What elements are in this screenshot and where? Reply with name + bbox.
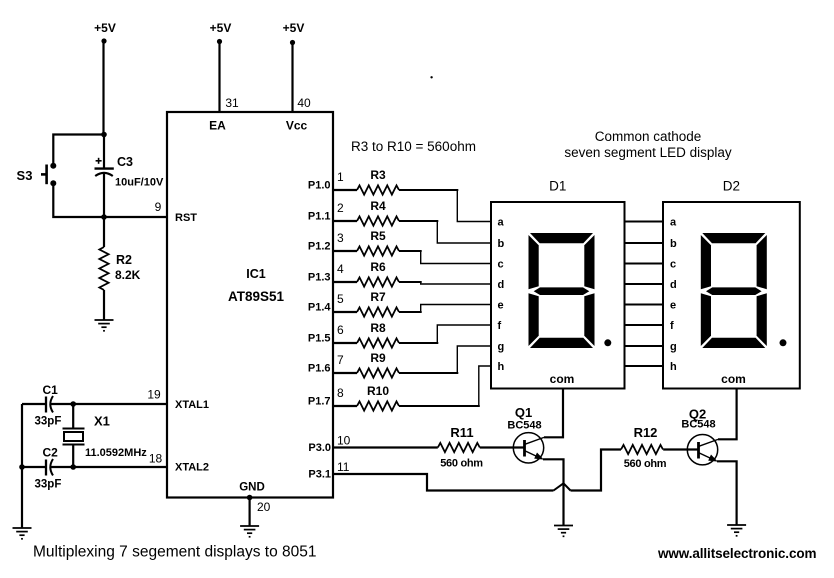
svg-text:R12: R12 — [634, 425, 658, 440]
svg-text:D1: D1 — [549, 179, 566, 194]
svg-text:2: 2 — [337, 201, 344, 215]
pin P1.5 label — [308, 323, 344, 345]
svg-text:33pF: 33pF — [35, 416, 62, 428]
svg-text:R5: R5 — [370, 229, 386, 243]
svg-text:g: g — [670, 341, 677, 353]
wire D1-D2 segment f — [625, 324, 664, 326]
svg-text:P1.2: P1.2 — [308, 241, 331, 253]
svg-text:11.0592MHz: 11.0592MHz — [85, 447, 147, 459]
wire P3.1 route to R12 — [571, 450, 622, 491]
svg-text:1: 1 — [337, 170, 344, 184]
wire C1 to XTAL1 pin — [51, 403, 169, 405]
svg-text:d: d — [498, 279, 505, 291]
wire R7 to segment — [399, 305, 491, 313]
svg-text:a: a — [498, 217, 505, 229]
wire P1.0 to R3 — [333, 189, 357, 191]
resistor R3 — [357, 168, 399, 195]
svg-text:IC1: IC1 — [246, 267, 266, 281]
pin 40 label — [297, 96, 311, 110]
svg-text:GND: GND — [239, 482, 265, 494]
svg-text:P3.0: P3.0 — [308, 442, 331, 454]
node stray dot — [430, 76, 432, 78]
wire crystal bottom — [72, 445, 74, 468]
wire P1.7 to R10 — [333, 405, 357, 407]
wire D1-D2 segment e — [625, 304, 664, 306]
capacitor C1 — [35, 383, 62, 428]
svg-text:com: com — [550, 372, 575, 386]
wire D1-D2 segment g — [625, 345, 664, 347]
svg-text:R6: R6 — [370, 260, 386, 274]
svg-text:Multiplexing 7 segement displa: Multiplexing 7 segement displays to 8051 — [33, 544, 316, 561]
svg-text:5: 5 — [337, 292, 344, 306]
svg-text:+5V: +5V — [94, 21, 116, 35]
svg-text:X1: X1 — [94, 414, 110, 429]
wire D1-D2 segment d — [625, 283, 664, 285]
svg-text:R7: R7 — [370, 290, 386, 304]
ground (Q1) — [554, 526, 573, 537]
svg-text:+5V: +5V — [283, 21, 305, 35]
svg-text:c: c — [670, 259, 676, 271]
wire R2 to ground — [103, 290, 105, 320]
svg-text:com: com — [721, 372, 746, 386]
node crystal top — [70, 401, 76, 407]
wire P1.4 to R7 — [333, 311, 357, 313]
display D2 — [663, 179, 800, 389]
resistor R4 — [357, 199, 399, 226]
label common cathode — [564, 129, 732, 160]
svg-text:20: 20 — [257, 500, 271, 514]
pin P1.7 label — [308, 386, 344, 408]
svg-text:S3: S3 — [17, 168, 33, 183]
pin 20 label — [257, 500, 271, 514]
wire D1-D2 segment b — [625, 242, 664, 244]
svg-text:Vcc: Vcc — [286, 119, 308, 133]
transistor Q1 — [507, 405, 544, 463]
svg-text:h: h — [670, 361, 677, 373]
svg-text:XTAL1: XTAL1 — [175, 399, 209, 411]
node left rail — [19, 464, 25, 470]
ground (left rail) — [13, 528, 32, 539]
resistor R10 — [357, 384, 399, 411]
svg-text:R3 to R10 = 560ohm: R3 to R10 = 560ohm — [351, 139, 476, 154]
display D1 — [491, 179, 625, 389]
wire R8 to segment — [399, 325, 491, 343]
svg-text:R11: R11 — [450, 425, 473, 440]
svg-text:R9: R9 — [370, 351, 386, 365]
svg-text:R10: R10 — [367, 384, 389, 398]
svg-text:R3: R3 — [370, 168, 386, 182]
svg-text:3: 3 — [337, 231, 344, 245]
wire C2 to XTAL2 pin — [51, 466, 169, 468]
svg-text:C2: C2 — [43, 446, 59, 460]
resistor R11 — [438, 425, 483, 470]
svg-text:4: 4 — [337, 262, 344, 276]
svg-text:AT89S51: AT89S51 — [228, 289, 285, 304]
wire Q1 collector to D1 com — [544, 389, 563, 438]
wire node to RST pin — [104, 216, 168, 218]
resistor R5 — [357, 229, 399, 256]
svg-text:seven segment LED display: seven segment LED display — [564, 145, 732, 160]
resistor R9 — [357, 351, 399, 378]
wire D1-D2 segment a — [625, 221, 664, 223]
pin P3.0 label — [308, 434, 350, 455]
svg-text:P1.1: P1.1 — [308, 211, 331, 223]
resistor R7 — [357, 290, 399, 317]
wire XTAL2 row left — [22, 466, 45, 468]
wire R4 to segment — [399, 221, 491, 243]
label R3 to R10 value — [351, 139, 476, 154]
svg-text:31: 31 — [225, 96, 239, 110]
svg-text:R8: R8 — [370, 321, 386, 335]
svg-text:P1.4: P1.4 — [308, 302, 332, 314]
wire S3 branch top — [53, 135, 104, 166]
svg-text:+5V: +5V — [210, 21, 232, 35]
pin 31 label — [225, 96, 239, 110]
svg-text:C1: C1 — [43, 383, 59, 397]
ground (Q2) — [727, 525, 746, 536]
svg-text:www.allitselectronic.com: www.allitselectronic.com — [657, 546, 816, 561]
svg-text:EA: EA — [209, 119, 226, 133]
wire C3 to node RST — [103, 174, 105, 218]
capacitor C3 — [95, 155, 164, 189]
svg-text:11: 11 — [337, 460, 350, 474]
wire D1-D2 segment c — [625, 263, 664, 265]
svg-text:560 ohm: 560 ohm — [624, 458, 667, 470]
wire R12 to Q2 base — [663, 448, 698, 450]
resistor R8 — [357, 321, 399, 348]
svg-text:P1.0: P1.0 — [308, 180, 331, 192]
svg-text:RST: RST — [175, 212, 197, 224]
node junction RST — [101, 214, 107, 220]
wire D1-D2 segment h — [625, 365, 664, 367]
wire node to R2 — [103, 217, 105, 247]
svg-text:P1.6: P1.6 — [308, 363, 331, 375]
svg-text:D2: D2 — [723, 179, 740, 194]
wire P1.2 to R5 — [333, 250, 357, 252]
power +5V rail (reset) — [94, 21, 116, 44]
svg-text:d: d — [670, 279, 677, 291]
op IC1 AT89S51 body — [155, 112, 333, 498]
svg-text:560 ohm: 560 ohm — [440, 458, 483, 470]
pin P1.4 label — [308, 292, 344, 314]
wire P1.1 to R4 — [333, 220, 357, 222]
svg-text:10uF/10V: 10uF/10V — [115, 177, 164, 189]
svg-text:7: 7 — [337, 353, 344, 367]
svg-text:8.2K: 8.2K — [115, 268, 141, 282]
svg-text:6: 6 — [337, 323, 344, 337]
ground (pin 20) — [240, 526, 259, 537]
wire +5V to Vcc pin 40 — [291, 43, 293, 114]
wire P1.5 to R8 — [333, 342, 357, 344]
svg-text:Common cathode: Common cathode — [595, 129, 702, 144]
power +5V rail (Vcc) — [283, 21, 305, 45]
svg-text:f: f — [498, 320, 502, 332]
svg-text:R4: R4 — [370, 199, 386, 213]
wire GND pin to ground — [249, 498, 251, 527]
resistor R2 — [99, 247, 140, 290]
transistor Q2 — [681, 407, 718, 465]
crystal X1 — [63, 414, 148, 460]
svg-text:a: a — [670, 217, 677, 229]
svg-text:BC548: BC548 — [507, 420, 541, 432]
svg-text:18: 18 — [149, 452, 163, 466]
svg-text:P1.7: P1.7 — [308, 396, 331, 408]
wire R3 to segment — [399, 190, 491, 222]
svg-text:BC548: BC548 — [681, 419, 715, 431]
svg-text:Q1: Q1 — [515, 405, 532, 420]
pin P3.1 label — [308, 460, 349, 481]
ground (R2) — [95, 320, 114, 331]
wire R10 to segment — [399, 366, 491, 406]
wire R6 to segment — [399, 282, 491, 284]
pin P1.6 label — [308, 353, 344, 375]
wire hop over ground wire — [554, 483, 571, 490]
svg-text:8: 8 — [337, 386, 344, 400]
wire Q1 emitter to ground — [543, 459, 564, 525]
pin P1.2 label — [308, 231, 344, 253]
wire Q2 collector to D2 com — [718, 389, 737, 440]
svg-text:P1.5: P1.5 — [308, 333, 331, 345]
svg-text:h: h — [498, 361, 505, 373]
svg-text:g: g — [498, 341, 505, 353]
pin P1.1 label — [308, 201, 344, 223]
resistor R12 — [621, 425, 667, 470]
wire R9 to segment — [399, 346, 491, 373]
svg-text:b: b — [498, 238, 505, 250]
svg-text:b: b — [670, 238, 677, 250]
svg-text:c: c — [498, 259, 504, 271]
svg-text:40: 40 — [297, 96, 311, 110]
svg-text:P3.1: P3.1 — [308, 469, 331, 481]
svg-text:19: 19 — [147, 388, 161, 402]
wire R5 to segment — [399, 251, 491, 264]
wire P1.6 to R9 — [333, 372, 357, 374]
svg-text:R2: R2 — [116, 253, 132, 267]
svg-text:f: f — [670, 320, 674, 332]
svg-text:10: 10 — [337, 434, 351, 448]
wire R11 to Q1 base — [480, 446, 524, 448]
label title — [33, 544, 316, 561]
wire S3 branch bottom — [53, 183, 104, 217]
pin P1.0 label — [308, 170, 344, 192]
wire P3.1 route — [333, 474, 554, 491]
svg-text:P1.3: P1.3 — [308, 272, 331, 284]
svg-text:e: e — [670, 300, 676, 312]
resistor R6 — [357, 260, 399, 287]
wire junction to C3 — [103, 135, 105, 168]
node junction top — [101, 132, 107, 138]
pin P1.3 label — [308, 262, 344, 284]
pin 18 label — [149, 452, 163, 466]
pin 19 label — [147, 388, 161, 402]
wire P1.3 to R6 — [333, 281, 357, 283]
switch S3 — [17, 163, 57, 187]
node GND pin — [247, 495, 253, 501]
power +5V rail (EA) — [210, 21, 232, 44]
wire left rail — [21, 404, 23, 528]
svg-text:9: 9 — [155, 200, 162, 214]
svg-text:XTAL2: XTAL2 — [175, 462, 209, 474]
wire Q2 emitter to ground — [717, 461, 737, 525]
wire crystal top — [72, 404, 74, 429]
wire +5V to node RST-top — [102, 41, 104, 135]
capacitor C2 — [35, 446, 62, 491]
label website — [657, 546, 816, 561]
node crystal bottom — [70, 464, 76, 470]
svg-text:C3: C3 — [117, 155, 133, 169]
svg-text:e: e — [498, 300, 504, 312]
wire P3.0 to R11 — [333, 446, 438, 448]
svg-text:33pF: 33pF — [35, 479, 62, 491]
wire XTAL1 row left — [22, 403, 45, 405]
wire +5V to EA pin 31 — [218, 42, 220, 114]
